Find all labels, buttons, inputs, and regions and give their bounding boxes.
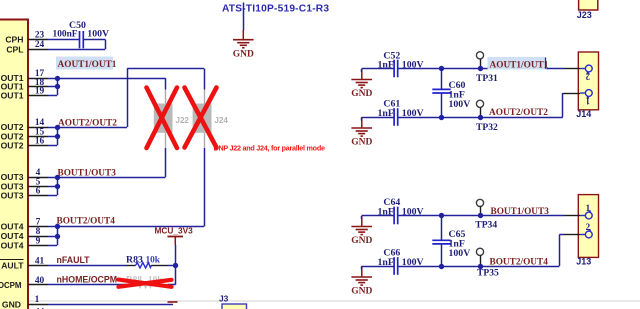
capacitor C66	[378, 248, 424, 275]
wire nFAULT	[48, 265, 126, 267]
svg-text:24: 24	[35, 40, 45, 50]
svg-text:OUT4: OUT4	[1, 240, 24, 250]
svg-text:nFAULT: nFAULT	[57, 255, 91, 265]
junction C65 bottom	[439, 264, 444, 269]
ground at C52	[351, 69, 372, 100]
svg-text:TP32: TP32	[476, 122, 498, 133]
svg-text:100V: 100V	[449, 99, 471, 110]
svg-text:100V: 100V	[402, 59, 424, 70]
svg-text:GND: GND	[233, 49, 254, 59]
svg-text:J23: J23	[577, 10, 592, 20]
wire MCU_3V3 to R83/R88	[175, 245, 177, 285]
ground at C61	[351, 117, 372, 148]
pin 14	[28, 118, 48, 128]
junction OUT4 pins	[55, 224, 60, 229]
wire AOUT1 row	[362, 68, 564, 70]
svg-text:J22: J22	[176, 116, 190, 125]
wire AOUT2 row	[362, 93, 564, 118]
pin 4	[28, 168, 48, 178]
capacitor C65 (vertical)	[432, 216, 470, 267]
svg-text:nHOME/OCPM: nHOME/OCPM	[57, 275, 118, 285]
svg-text:OUT3: OUT3	[1, 190, 24, 200]
test point TP32	[476, 100, 498, 133]
svg-text:GND: GND	[351, 236, 372, 246]
junction TP35	[478, 264, 483, 269]
pin 8	[28, 227, 48, 237]
ground top middle	[233, 30, 254, 59]
svg-text:2: 2	[585, 72, 590, 82]
net label AOUT1/OUT1 (selected)	[56, 57, 117, 71]
svg-text:16: 16	[35, 136, 45, 146]
power stub at end of GND wire	[168, 301, 178, 303]
svg-text:100V: 100V	[402, 206, 424, 217]
pin 19	[28, 86, 48, 96]
svg-text:6: 6	[36, 186, 41, 196]
svg-text:41: 41	[35, 256, 45, 266]
capacitor C50	[48, 20, 109, 49]
wire OUT3 bus	[48, 177, 58, 196]
connector J13	[564, 195, 599, 267]
wire nHOME/OCPM	[48, 284, 126, 286]
svg-text:DNP J22 and J24, for parallel: DNP J22 and J24, for parallel mode	[214, 143, 325, 152]
pin 23	[28, 31, 48, 41]
jumper J24	[193, 90, 229, 149]
pin 15	[28, 127, 48, 137]
junction TP34	[478, 213, 483, 218]
wire OUT1 bus	[48, 78, 58, 96]
power port MCU_3V3	[155, 226, 194, 246]
svg-text:OCPM: OCPM	[0, 281, 22, 290]
junction R83 node	[173, 263, 178, 268]
svg-text:AOUT1/OUT1: AOUT1/OUT1	[58, 60, 117, 70]
jumper J22	[154, 90, 190, 149]
svg-text:ATS-TI10P-519-C1-R3: ATS-TI10P-519-C1-R3	[222, 4, 329, 15]
svg-text:AOUT1/OUT1: AOUT1/OUT1	[490, 60, 549, 70]
junction C60 top	[439, 66, 444, 71]
svg-text:OUT4: OUT4	[1, 222, 24, 232]
pin 1	[28, 295, 48, 305]
svg-text:100V: 100V	[402, 108, 424, 119]
capacitor C61	[378, 99, 424, 126]
junction C65 top	[439, 213, 444, 218]
junction TP32	[478, 115, 483, 120]
wire OUT2 bus	[48, 127, 58, 146]
pin 24	[28, 40, 48, 50]
svg-text:GND: GND	[351, 138, 372, 148]
svg-text:1nF: 1nF	[378, 206, 394, 217]
svg-text:BOUT1/OUT3: BOUT1/OUT3	[58, 168, 117, 178]
svg-text:J3: J3	[219, 294, 229, 304]
svg-text:AOUT2/OUT2: AOUT2/OUT2	[489, 108, 548, 118]
svg-text:9: 9	[36, 236, 41, 246]
svg-text:GND: GND	[351, 287, 372, 297]
wire GND pin1	[48, 304, 173, 306]
svg-text:GND: GND	[351, 89, 372, 99]
wire AOUT1 to J22	[57, 78, 166, 90]
svg-text:R83: R83	[126, 255, 143, 266]
wire BOUT1 row	[362, 215, 564, 217]
DNP cross over J24	[185, 88, 217, 148]
pin 41	[28, 256, 48, 266]
svg-text:1nF: 1nF	[378, 59, 394, 70]
svg-text:100V: 100V	[449, 248, 471, 259]
svg-text:J14: J14	[576, 109, 591, 119]
connector J23 (clipped)	[577, 0, 598, 20]
wire BOUT2 to J24 bottom	[57, 148, 205, 227]
svg-text:1nF: 1nF	[378, 108, 394, 119]
resistor R88 10k (DNP, greyed)	[126, 276, 175, 288]
wire BOUT1 to J22 bottom	[57, 148, 166, 178]
resistor R83 10k	[126, 255, 175, 269]
svg-text:TP31: TP31	[476, 73, 498, 84]
DNP cross over J22	[147, 88, 178, 149]
svg-text:40: 40	[35, 276, 45, 286]
svg-text:1nF: 1nF	[378, 257, 394, 268]
wire OUT4 bus	[48, 227, 58, 246]
connector J3 (clipped)	[219, 294, 247, 309]
junction OUT3 pins	[55, 175, 60, 180]
svg-text:100nF: 100nF	[53, 30, 78, 40]
test point TP34	[475, 199, 497, 230]
test point TP35	[476, 248, 499, 278]
pin name nFAULT (overline)	[0, 260, 24, 271]
svg-text:MCU_3V3: MCU_3V3	[155, 226, 194, 236]
svg-text:1: 1	[585, 96, 590, 106]
pin 5	[28, 177, 48, 187]
capacitor C52	[378, 50, 424, 77]
svg-text:CPH: CPH	[5, 35, 23, 45]
wire to top GND	[243, 3, 245, 31]
svg-text:J13: J13	[576, 256, 591, 266]
sheet edge line	[0, 300, 640, 302]
junction OUT1 pins	[55, 76, 60, 81]
ground at C66	[351, 266, 372, 297]
svg-text:1: 1	[35, 295, 40, 305]
svg-text:AOUT2/OUT2: AOUT2/OUT2	[58, 118, 117, 128]
pin 40	[28, 276, 48, 286]
capacitor C64	[378, 197, 424, 224]
pin 6	[28, 186, 48, 196]
svg-text:19: 19	[35, 86, 45, 96]
pin 9	[28, 236, 48, 246]
pin 18	[28, 78, 48, 88]
svg-text:J24: J24	[215, 116, 229, 125]
svg-text:OUT2: OUT2	[1, 140, 24, 150]
svg-text:OUT1: OUT1	[1, 90, 24, 100]
svg-text:GND: GND	[2, 299, 21, 309]
svg-text:BOUT2/OUT4: BOUT2/OUT4	[490, 257, 549, 267]
svg-text:2: 2	[586, 222, 591, 232]
svg-text:CPL: CPL	[6, 44, 23, 54]
capacitor C60 (vertical)	[432, 69, 470, 118]
ground at C64	[351, 216, 372, 247]
svg-text:AULT: AULT	[1, 260, 24, 270]
svg-text:1: 1	[586, 203, 591, 213]
pin 7	[28, 218, 48, 228]
svg-text:10k: 10k	[146, 256, 161, 266]
svg-text:BOUT2/OUT4: BOUT2/OUT4	[57, 217, 116, 227]
svg-text:TP34: TP34	[475, 220, 497, 231]
junction TP31	[478, 66, 483, 71]
junction C60 bottom	[439, 115, 444, 120]
wire BOUT2 row	[362, 235, 564, 267]
test point TP31	[476, 52, 498, 84]
svg-text:100V: 100V	[402, 257, 424, 268]
wire AOUT2 up-and-over to J24	[57, 69, 205, 128]
DNP cross over R88	[119, 280, 172, 287]
pin 16	[28, 136, 48, 146]
junction OUT2 pins	[55, 125, 60, 130]
svg-text:BOUT1/OUT3: BOUT1/OUT3	[491, 207, 550, 217]
IC U1 body	[0, 20, 28, 309]
svg-text:7: 7	[36, 218, 41, 228]
svg-text:100V: 100V	[87, 29, 109, 40]
svg-text:23: 23	[35, 31, 45, 41]
pin 17	[28, 69, 48, 79]
connector J14	[564, 52, 599, 119]
net label AOUT1/OUT1 (selected, edit cursor)	[488, 57, 549, 70]
